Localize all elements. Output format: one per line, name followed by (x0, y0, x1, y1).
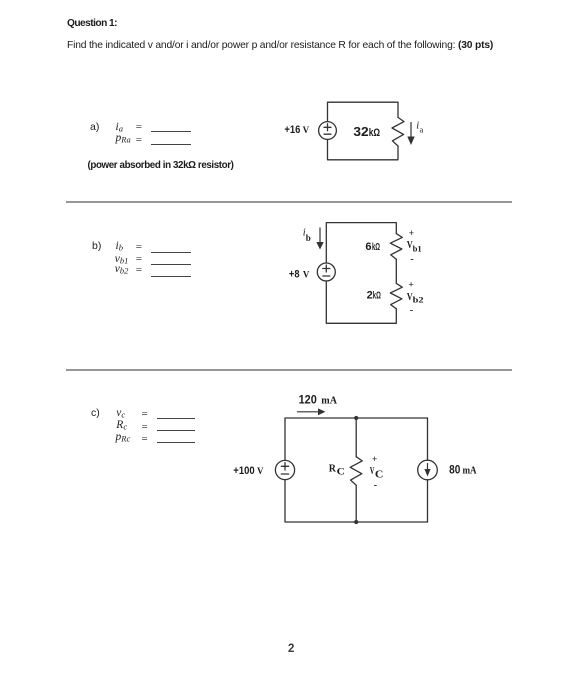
svg-text:120: 120 (299, 395, 317, 407)
svg-text:+16: +16 (284, 124, 300, 136)
svg-text:R: R (329, 463, 337, 474)
svg-text:mA: mA (463, 465, 477, 477)
svg-text:kΩ: kΩ (372, 242, 380, 253)
svg-text:-: - (410, 254, 413, 265)
svg-text:b: b (306, 233, 311, 243)
svg-text:V: V (303, 269, 310, 279)
svg-text:b1: b1 (413, 243, 422, 253)
svg-text:C: C (375, 469, 384, 480)
svg-text:b2: b2 (413, 294, 424, 304)
svg-text:V: V (303, 125, 310, 135)
svg-text:+: + (372, 455, 377, 465)
svg-text:mA: mA (321, 395, 337, 407)
svg-text:2: 2 (367, 289, 373, 301)
svg-text:V: V (257, 466, 264, 476)
svg-text:kΩ: kΩ (373, 290, 381, 301)
svg-text:-: - (410, 305, 413, 316)
svg-text:+100: +100 (233, 465, 254, 477)
svg-text:-: - (374, 480, 377, 491)
svg-text:kΩ: kΩ (369, 127, 380, 139)
svg-text:C: C (337, 467, 345, 477)
svg-text:6: 6 (365, 241, 371, 253)
svg-text:a: a (420, 125, 424, 135)
svg-text:+: + (409, 229, 414, 239)
svg-text:32: 32 (353, 124, 368, 139)
svg-text:+: + (408, 280, 413, 290)
svg-text:+8: +8 (289, 269, 300, 281)
svg-text:80: 80 (449, 463, 460, 477)
